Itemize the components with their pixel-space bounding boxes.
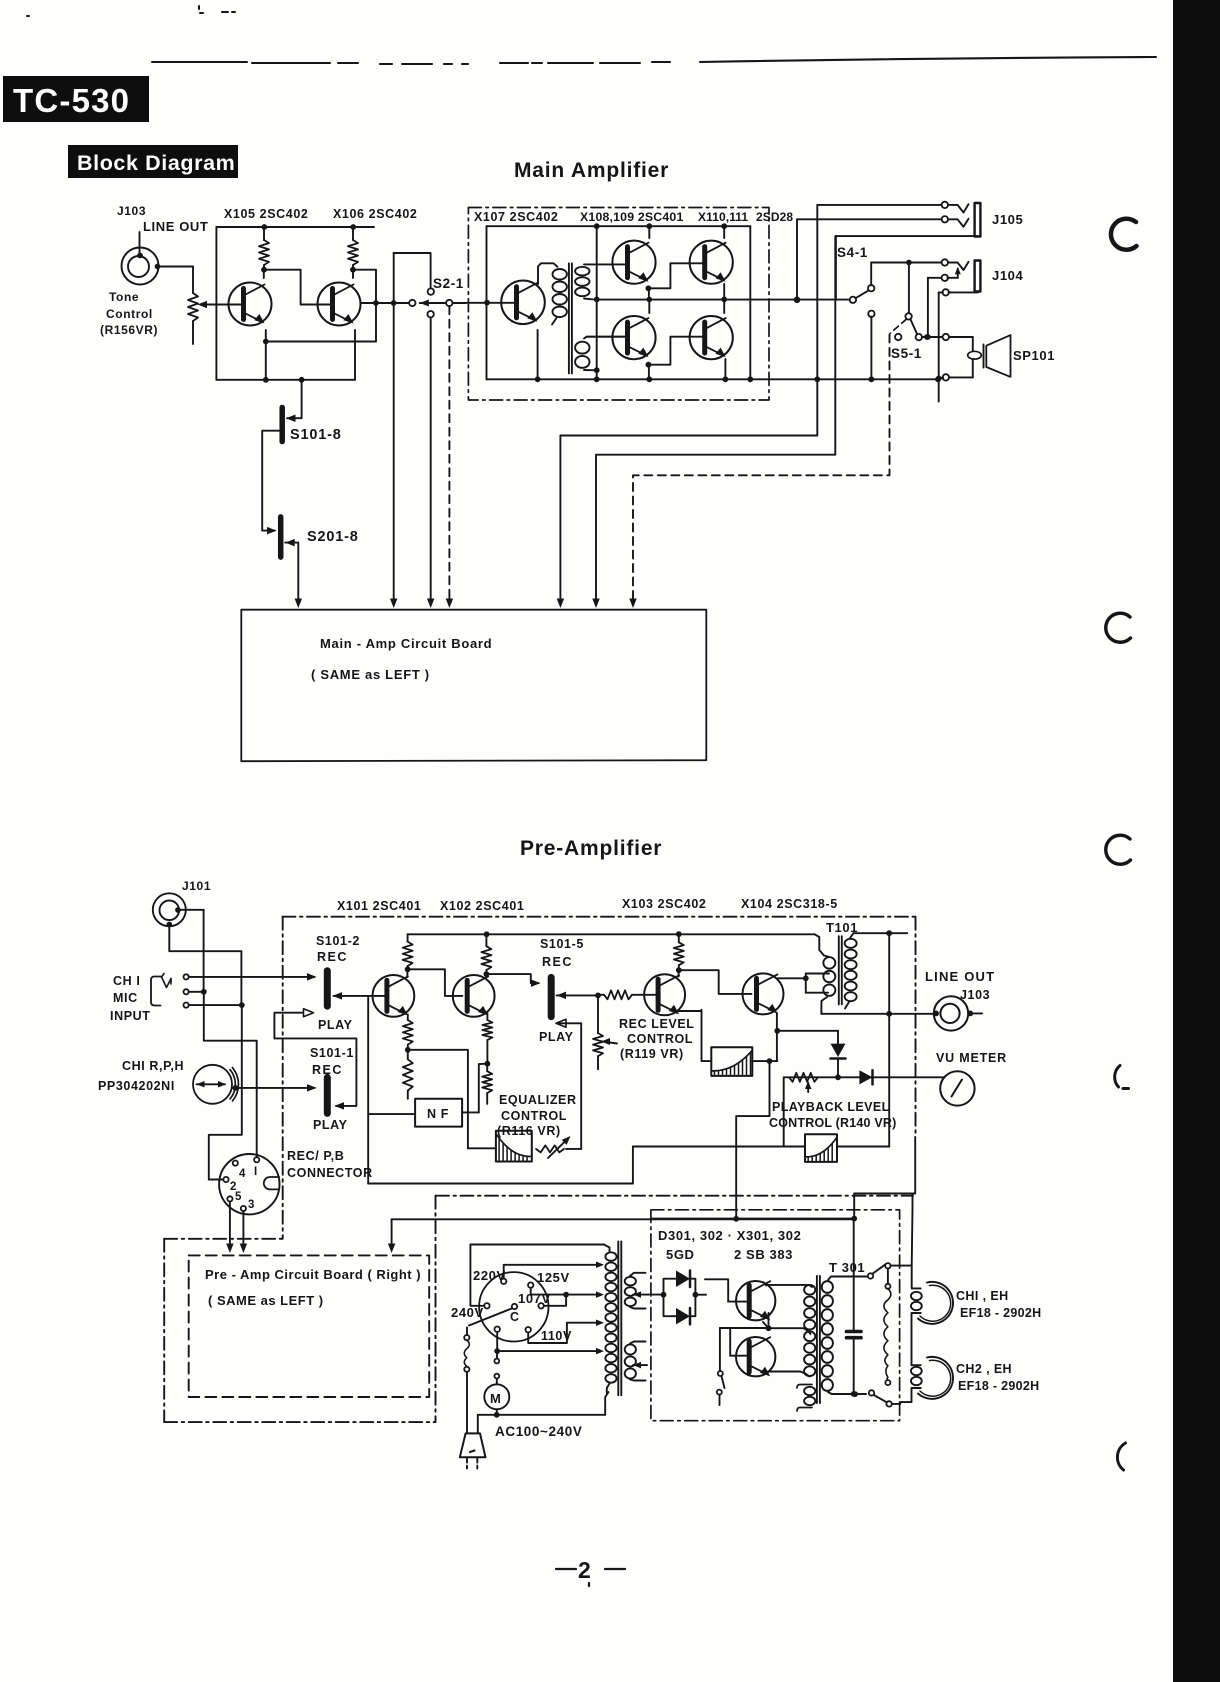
wire J101 sleeve [169, 926, 241, 1005]
wire X110 collector [723, 226, 725, 238]
transistor X103 [644, 974, 685, 1015]
svg-text:S101-2: S101-2 [316, 934, 360, 948]
svg-text:LINE OUT: LINE OUT [925, 969, 995, 984]
jack J104 body [975, 261, 981, 292]
resistor X106 collector load [352, 227, 354, 240]
stray specks top [27, 6, 235, 16]
slider R116 equalizer [496, 1131, 532, 1162]
svg-text:CHI R,P,H: CHI R,P,H [122, 1059, 184, 1073]
Block Diagram label [68, 145, 238, 178]
switch S101-5 PLAY arrow [556, 1019, 566, 1027]
pre-amp boundary right solid segment [854, 1137, 915, 1219]
svg-text:S101-5: S101-5 [540, 937, 584, 951]
svg-text:EQUALIZER: EQUALIZER [499, 1093, 577, 1107]
wire X101 base to S101-2 [334, 995, 387, 997]
wire line out [821, 1013, 933, 1015]
rectifier bridge D301,302 [661, 1292, 667, 1298]
resistor X102 emitter upper [482, 1020, 492, 1040]
binder ring mark C1 [1111, 219, 1137, 250]
selector arm [469, 1308, 512, 1325]
svg-text:Control: Control [106, 307, 153, 321]
svg-text:INPUT: INPUT [110, 1009, 151, 1023]
selector pin 125V [528, 1282, 533, 1287]
wire rail to T101 primary [815, 934, 828, 956]
wire T101 secondary top [854, 932, 908, 934]
resistor X102 collector load [485, 934, 487, 946]
pre-amp supply rail [408, 933, 815, 935]
wire 220V to tap1 [504, 1265, 600, 1279]
power transformer secondary lower [625, 1344, 636, 1354]
transistor X107 [501, 281, 545, 325]
slider X103 emitter [711, 1047, 752, 1076]
transistor X110 [690, 241, 733, 284]
svg-text:N F: N F [427, 1107, 449, 1121]
wire coupling X103-X104 [679, 970, 752, 994]
svg-text:Main - Amp Circuit Board: Main - Amp Circuit Board [320, 636, 492, 651]
jack J103 (top left) [122, 248, 159, 285]
potentiometer R119 rec level [597, 995, 599, 1033]
wire X108 collector [648, 226, 650, 238]
wire X302 base [730, 1355, 748, 1357]
svg-text:5GD: 5GD [666, 1247, 695, 1262]
speaker SP101 coil [972, 337, 974, 377]
wire pin3 to board [242, 1211, 244, 1247]
transformer IT secondary lower [575, 342, 589, 354]
transistor X106 [318, 283, 361, 326]
wire secondary bottom line [832, 1393, 866, 1395]
svg-text:J103: J103 [960, 988, 990, 1002]
svg-text:( SAME as LEFT ): ( SAME as LEFT ) [311, 667, 430, 682]
pre-amp dash-dot boundary bottom [436, 1195, 913, 1197]
resistor X103 base series [604, 990, 632, 999]
head CH1 EH [918, 1282, 953, 1324]
svg-text:X102 2SC401: X102 2SC401 [440, 899, 524, 913]
power box B+ internal line [652, 1218, 854, 1220]
resistor R140 [789, 1073, 818, 1082]
svg-text:S5-1: S5-1 [891, 346, 922, 361]
node X107 base [484, 300, 490, 306]
switch S101-8 [287, 380, 302, 418]
svg-text:CHI , EH: CHI , EH [956, 1289, 1009, 1303]
selector pin 107V [538, 1303, 543, 1308]
head CH2 EH [918, 1357, 953, 1399]
wire S5-1 dashed down-left to board [633, 335, 890, 603]
power supply dash-dot box [651, 1210, 900, 1421]
wire X107 emitter [537, 330, 539, 379]
wire S2-1 vertical to board [393, 253, 395, 603]
transformer T301 feedback winding [797, 1385, 812, 1389]
wire slider down to power box [736, 1061, 769, 1219]
svg-text:S4-1: S4-1 [837, 245, 868, 260]
wire X106 collector [352, 270, 354, 278]
connector pin 4 [233, 1161, 238, 1166]
svg-text:(R156VR): (R156VR) [100, 323, 158, 337]
jack J104 ring contact [942, 275, 948, 281]
wire S2-1 lower contact to board [430, 317, 432, 602]
wire X101 emitter to NF [408, 1050, 468, 1113]
wire 240V to primary top [470, 1245, 609, 1306]
equalizer wiper arrow [536, 1145, 564, 1152]
wire X107 collector to transformer [538, 263, 558, 284]
svg-text:AC100~240V: AC100~240V [495, 1424, 582, 1439]
jack J103 line out [933, 1011, 939, 1017]
wire X108 emitter to X110 base [646, 285, 652, 291]
transistor X108 [612, 241, 655, 284]
wire between heads [912, 1313, 921, 1365]
wire pin5 to board [229, 1202, 231, 1248]
svg-text:C: C [510, 1310, 520, 1324]
wire X111 emitter [724, 359, 726, 379]
Main-Amp circuit board box [241, 610, 706, 762]
resistor X105 collector load [263, 227, 265, 240]
svg-text:5: 5 [235, 1191, 242, 1203]
svg-text:X104 2SC318-5: X104 2SC318-5 [741, 897, 838, 911]
svg-text:220V: 220V [473, 1268, 506, 1283]
transformer T301 primary [804, 1285, 815, 1295]
switch S101-5 bar [548, 977, 555, 1016]
wire S101-5 to R119 node [557, 992, 567, 1000]
transformer T101 primary [823, 957, 835, 968]
jack CH1 mic body [151, 977, 161, 1006]
wire mic contact2 [189, 991, 204, 993]
svg-text:S201-8: S201-8 [307, 529, 359, 545]
switch S5-1 [905, 313, 911, 319]
connector pin 1 [254, 1157, 259, 1162]
wire X105 collector [263, 270, 265, 278]
wire VU meter line [784, 1076, 945, 1078]
svg-text:CONTROL: CONTROL [501, 1109, 567, 1123]
wire J105 ring line [797, 218, 942, 220]
fuse to AC line [466, 1328, 468, 1336]
svg-text:CH2 , EH: CH2 , EH [956, 1362, 1012, 1376]
svg-text:CONTROL (R140 VR): CONTROL (R140 VR) [769, 1116, 897, 1130]
svg-text:PLAYBACK LEVEL: PLAYBACK LEVEL [772, 1100, 890, 1114]
selector pin bottom-right [526, 1327, 531, 1332]
wire mic tip to S101-2 [189, 976, 315, 978]
wire VU line to playback slider [783, 1077, 785, 1146]
power transformer secondary upper [625, 1277, 636, 1286]
switch S101-2 PLAY arrow [274, 1013, 305, 1039]
wire center line into box [466, 302, 518, 304]
switch erase bottom [869, 1390, 874, 1395]
svg-text:2: 2 [578, 1557, 591, 1583]
resistor X101 emitter lower [407, 1050, 409, 1060]
meter VU [940, 1071, 974, 1105]
svg-text:MIC: MIC [113, 991, 138, 1005]
jack J105 body [975, 203, 981, 237]
wire X105 emitter [265, 330, 267, 380]
jack J101 [153, 893, 186, 926]
wire X104 emitter node [774, 1028, 780, 1034]
svg-text:CH I: CH I [113, 974, 140, 988]
svg-text:REC LEVEL: REC LEVEL [619, 1017, 695, 1031]
svg-text:X101 2SC401: X101 2SC401 [337, 899, 421, 913]
wire J105 feed down-left to board [560, 379, 817, 602]
wire playback slider right [837, 1146, 889, 1148]
transformer IT core [568, 263, 570, 373]
switch motor on/off [496, 1354, 498, 1359]
wire X109 collector [648, 300, 650, 314]
transistor X102 [453, 975, 495, 1017]
wire NF left [368, 1113, 415, 1115]
svg-text:2 SB 383: 2 SB 383 [734, 1247, 793, 1262]
transistor X101 [373, 975, 415, 1017]
wire supply tap vertical [596, 226, 598, 379]
svg-text:S101-1: S101-1 [310, 1046, 354, 1060]
wire J104 ring line [928, 277, 942, 279]
wire J101 tip to connector pin1 [179, 909, 204, 911]
wire X102 collector [485, 974, 487, 977]
wire secondary top to switch [868, 1273, 873, 1278]
svg-text:EF18 - 2902H: EF18 - 2902H [958, 1379, 1039, 1393]
wire erase supply from B+ [891, 1194, 913, 1266]
wire X301 collector to T301 [766, 1285, 812, 1287]
switch erase top contact [885, 1263, 890, 1268]
TC-530 title block [3, 76, 149, 122]
wire playback level line [633, 1146, 805, 1148]
switch S2-1 [409, 300, 415, 306]
svg-text:EF18 - 2902H: EF18 - 2902H [960, 1306, 1041, 1320]
wire X101 emitter [407, 1015, 409, 1021]
svg-text:3: 3 [248, 1199, 255, 1211]
connector pin 2 [223, 1177, 228, 1182]
wire X102 emitter [486, 1013, 488, 1020]
wire PLAY to EQ wiper [580, 1023, 582, 1149]
transistor X104 [743, 973, 784, 1014]
wire output line to S2-1 [361, 302, 410, 304]
wire B+ line to pre-amp board [392, 1218, 855, 1220]
wire X102 emitter to NF line [479, 1064, 488, 1113]
svg-text:J103: J103 [117, 204, 146, 218]
wire S101-8 to S201-8 [262, 431, 279, 531]
svg-text:D301, 302 · X301, 302: D301, 302 · X301, 302 [658, 1228, 801, 1243]
wire erase coil [885, 1284, 890, 1289]
svg-text:X110,111: X110,111 [698, 210, 748, 224]
wire X104 collector bracket [803, 975, 809, 981]
resistor X101 collector load [407, 934, 409, 941]
svg-text:X105 2SC402: X105 2SC402 [224, 207, 308, 221]
resistor X103 collector load [678, 934, 680, 942]
top broken rule [152, 57, 1156, 64]
wire CH2 head bottom [892, 1388, 921, 1404]
wire head to S101-1 [232, 1087, 315, 1089]
switch S101-2 bar [324, 971, 331, 1007]
AC plug [460, 1433, 486, 1457]
wire X106 collector to X105 emitter [266, 270, 376, 342]
wire X103 collector [678, 970, 680, 976]
svg-text:240V: 240V [451, 1305, 484, 1320]
pre-amp dash-dot boundary right [915, 917, 917, 1137]
binder ring mark C5 [1117, 1443, 1125, 1470]
node X301 emitter / X302 collector [766, 1325, 772, 1331]
wire J105 tip line [817, 204, 941, 206]
X105 stage frame [215, 227, 217, 380]
binder ring mark C2 [1106, 613, 1131, 642]
wire CH1 head top [912, 1266, 921, 1289]
wire speaker top line [922, 336, 973, 338]
connector REC/PB [219, 1154, 279, 1214]
wire osc feedback switch [720, 1327, 769, 1329]
wire X101 collector [406, 969, 408, 977]
transformer IT secondary upper [575, 267, 589, 276]
jack J105 ring contact [942, 216, 948, 222]
transistor X111 [690, 316, 733, 359]
wire J104 sleeve line [943, 289, 949, 295]
wire X106 emitter [354, 330, 356, 380]
wire coupling X102 to S101-5 [486, 974, 538, 983]
switch S4-1 [850, 297, 856, 303]
transformer T301 secondary [822, 1281, 833, 1293]
wire X101 base feedback down [367, 997, 369, 1184]
channel boundary dash-dot left step [164, 1238, 283, 1240]
svg-text:REC: REC [542, 955, 573, 969]
center output line [597, 299, 850, 301]
wire X110 emitter [723, 284, 725, 299]
svg-text:X106 2SC402: X106 2SC402 [333, 207, 417, 221]
svg-text:X107 2SC402: X107 2SC402 [474, 210, 558, 224]
svg-text:S2-1: S2-1 [433, 276, 464, 291]
wire J103 to tone pot [155, 264, 161, 270]
svg-text:CONNECTOR: CONNECTOR [287, 1166, 373, 1180]
svg-text:(R119 VR): (R119 VR) [620, 1047, 684, 1061]
binder ring mark C4 [1115, 1066, 1129, 1089]
jack J104 tip contact [942, 259, 948, 265]
svg-text:( SAME as LEFT ): ( SAME as LEFT ) [208, 1293, 324, 1308]
svg-text:LINE OUT: LINE OUT [143, 219, 208, 234]
svg-text:J105: J105 [992, 212, 1023, 227]
NF box [415, 1099, 462, 1127]
wire coupling X105 to X106 base [264, 270, 333, 305]
svg-text:Main Amplifier: Main Amplifier [514, 159, 669, 182]
wire J105 sleeve line [836, 235, 978, 237]
wire J104 tip line [871, 262, 941, 264]
main amp inner frame [487, 225, 751, 227]
connector pin 3 [241, 1206, 246, 1211]
wire AC line bottom [478, 1414, 605, 1416]
power transformer core [617, 1241, 619, 1395]
pre-amp dash-dot boundary top [283, 916, 916, 918]
svg-text:107V: 107V [518, 1291, 551, 1306]
diode D horizontal [859, 1070, 872, 1084]
jack J104 tip spring arrow [957, 269, 959, 278]
bottom rail [487, 378, 939, 380]
jack CH1 mic contacts [184, 974, 189, 979]
transistor X105 [229, 283, 272, 326]
wire J105 sleeve down-left to board [596, 236, 835, 602]
selector pin 220V [501, 1279, 506, 1284]
svg-text:T 301: T 301 [829, 1260, 865, 1275]
switch S5-1 feed [908, 263, 910, 314]
wire S2-1 dashed to board [448, 306, 450, 602]
svg-text:TC-530: TC-530 [13, 82, 130, 119]
binder ring mark C3 [1106, 835, 1131, 864]
svg-text:110V: 110V [541, 1329, 572, 1343]
wire 125V/107V to tap2 [531, 1288, 600, 1295]
svg-text:J101: J101 [182, 879, 211, 893]
svg-text:I: I [254, 1166, 258, 1178]
connector pin 5 [227, 1196, 232, 1201]
svg-text:S101-8: S101-8 [290, 427, 342, 443]
svg-text:PLAY: PLAY [318, 1018, 353, 1032]
svg-text:Block Diagram: Block Diagram [77, 151, 235, 175]
black scan band right edge [1173, 0, 1220, 1682]
svg-text:VU METER: VU METER [936, 1051, 1007, 1065]
svg-text:125V: 125V [537, 1270, 570, 1285]
svg-text:REC/ P,B: REC/ P,B [287, 1149, 344, 1163]
wire speaker bottom line [949, 376, 973, 378]
svg-text:Pre-Amplifier: Pre-Amplifier [520, 837, 662, 860]
motor M [484, 1384, 509, 1409]
voltage selector disc [479, 1272, 548, 1341]
transformer T301 core [816, 1276, 818, 1403]
transistor X109 [612, 316, 655, 359]
wire X109 base [587, 336, 628, 338]
svg-text:PLAY: PLAY [313, 1118, 348, 1132]
svg-text:REC: REC [317, 950, 348, 964]
wire selector to motor tap4 [496, 1332, 498, 1351]
transformer T101 core [838, 936, 840, 1004]
svg-text:J104: J104 [992, 268, 1023, 283]
resistor X102 emitter lower [486, 1064, 488, 1072]
wire X301 base [728, 1301, 748, 1303]
wire X302 emitter [766, 1372, 810, 1377]
wire center tap [769, 1328, 811, 1334]
svg-text:PP304202NI: PP304202NI [98, 1079, 175, 1093]
svg-text:PLAY: PLAY [539, 1030, 574, 1044]
wire VU branch vertical [888, 933, 890, 1146]
selector pin C [512, 1304, 517, 1309]
slider R140 playback [805, 1134, 837, 1162]
resistor X101 emitter upper [403, 1020, 413, 1045]
transformer T101 secondary [845, 939, 857, 948]
svg-text:SP101: SP101 [1013, 348, 1055, 363]
switch S201-8 [278, 517, 284, 557]
wire X109 emitter to X111 base [646, 362, 652, 368]
node top rail dots [261, 224, 267, 230]
svg-text:X108,109 2SC401: X108,109 2SC401 [580, 210, 684, 224]
svg-text:CONTROL: CONTROL [627, 1032, 693, 1046]
wire mic contact3 [189, 1004, 242, 1006]
wire coupling X101-X102 [408, 969, 463, 996]
feedback line bottom [368, 1183, 633, 1185]
svg-text:4: 4 [239, 1168, 246, 1180]
wire PLAY loop to S101-1 [274, 1038, 356, 1106]
svg-text:X103 2SC402: X103 2SC402 [622, 897, 706, 911]
rec/play head PP304202N1 [193, 1065, 232, 1104]
selector pin 240V [484, 1303, 489, 1308]
pre-amp circuit board box (dashed) [189, 1255, 430, 1397]
svg-text:2SD28: 2SD28 [756, 210, 793, 224]
switch S101-1 bar [324, 1077, 331, 1113]
svg-text:M: M [490, 1391, 501, 1406]
selector pin bottom-left [495, 1327, 500, 1332]
transistor X301 [736, 1281, 775, 1320]
jack J105 tip contact [942, 202, 948, 208]
wire X103 emitter to slider [676, 1010, 711, 1061]
wire NF right [462, 1111, 479, 1113]
pre-amp dash-dot boundary left [282, 917, 284, 1239]
svg-text:Pre - Amp Circuit Board (: Pre - Amp Circuit Board ( Right ) [205, 1267, 421, 1282]
capacitor C filter [853, 1219, 855, 1330]
speaker SP101 cone [986, 335, 1010, 377]
main amplifier dash-dot boundary [468, 208, 769, 401]
potentiometer R156VR tone control [188, 293, 198, 321]
svg-text:Tone: Tone [109, 290, 139, 304]
wire 110V to tap3 [528, 1323, 600, 1343]
wire X111 collector [723, 299, 725, 313]
power transformer primary [603, 1244, 605, 1246]
wire slider to X104 emitter [752, 1060, 777, 1062]
